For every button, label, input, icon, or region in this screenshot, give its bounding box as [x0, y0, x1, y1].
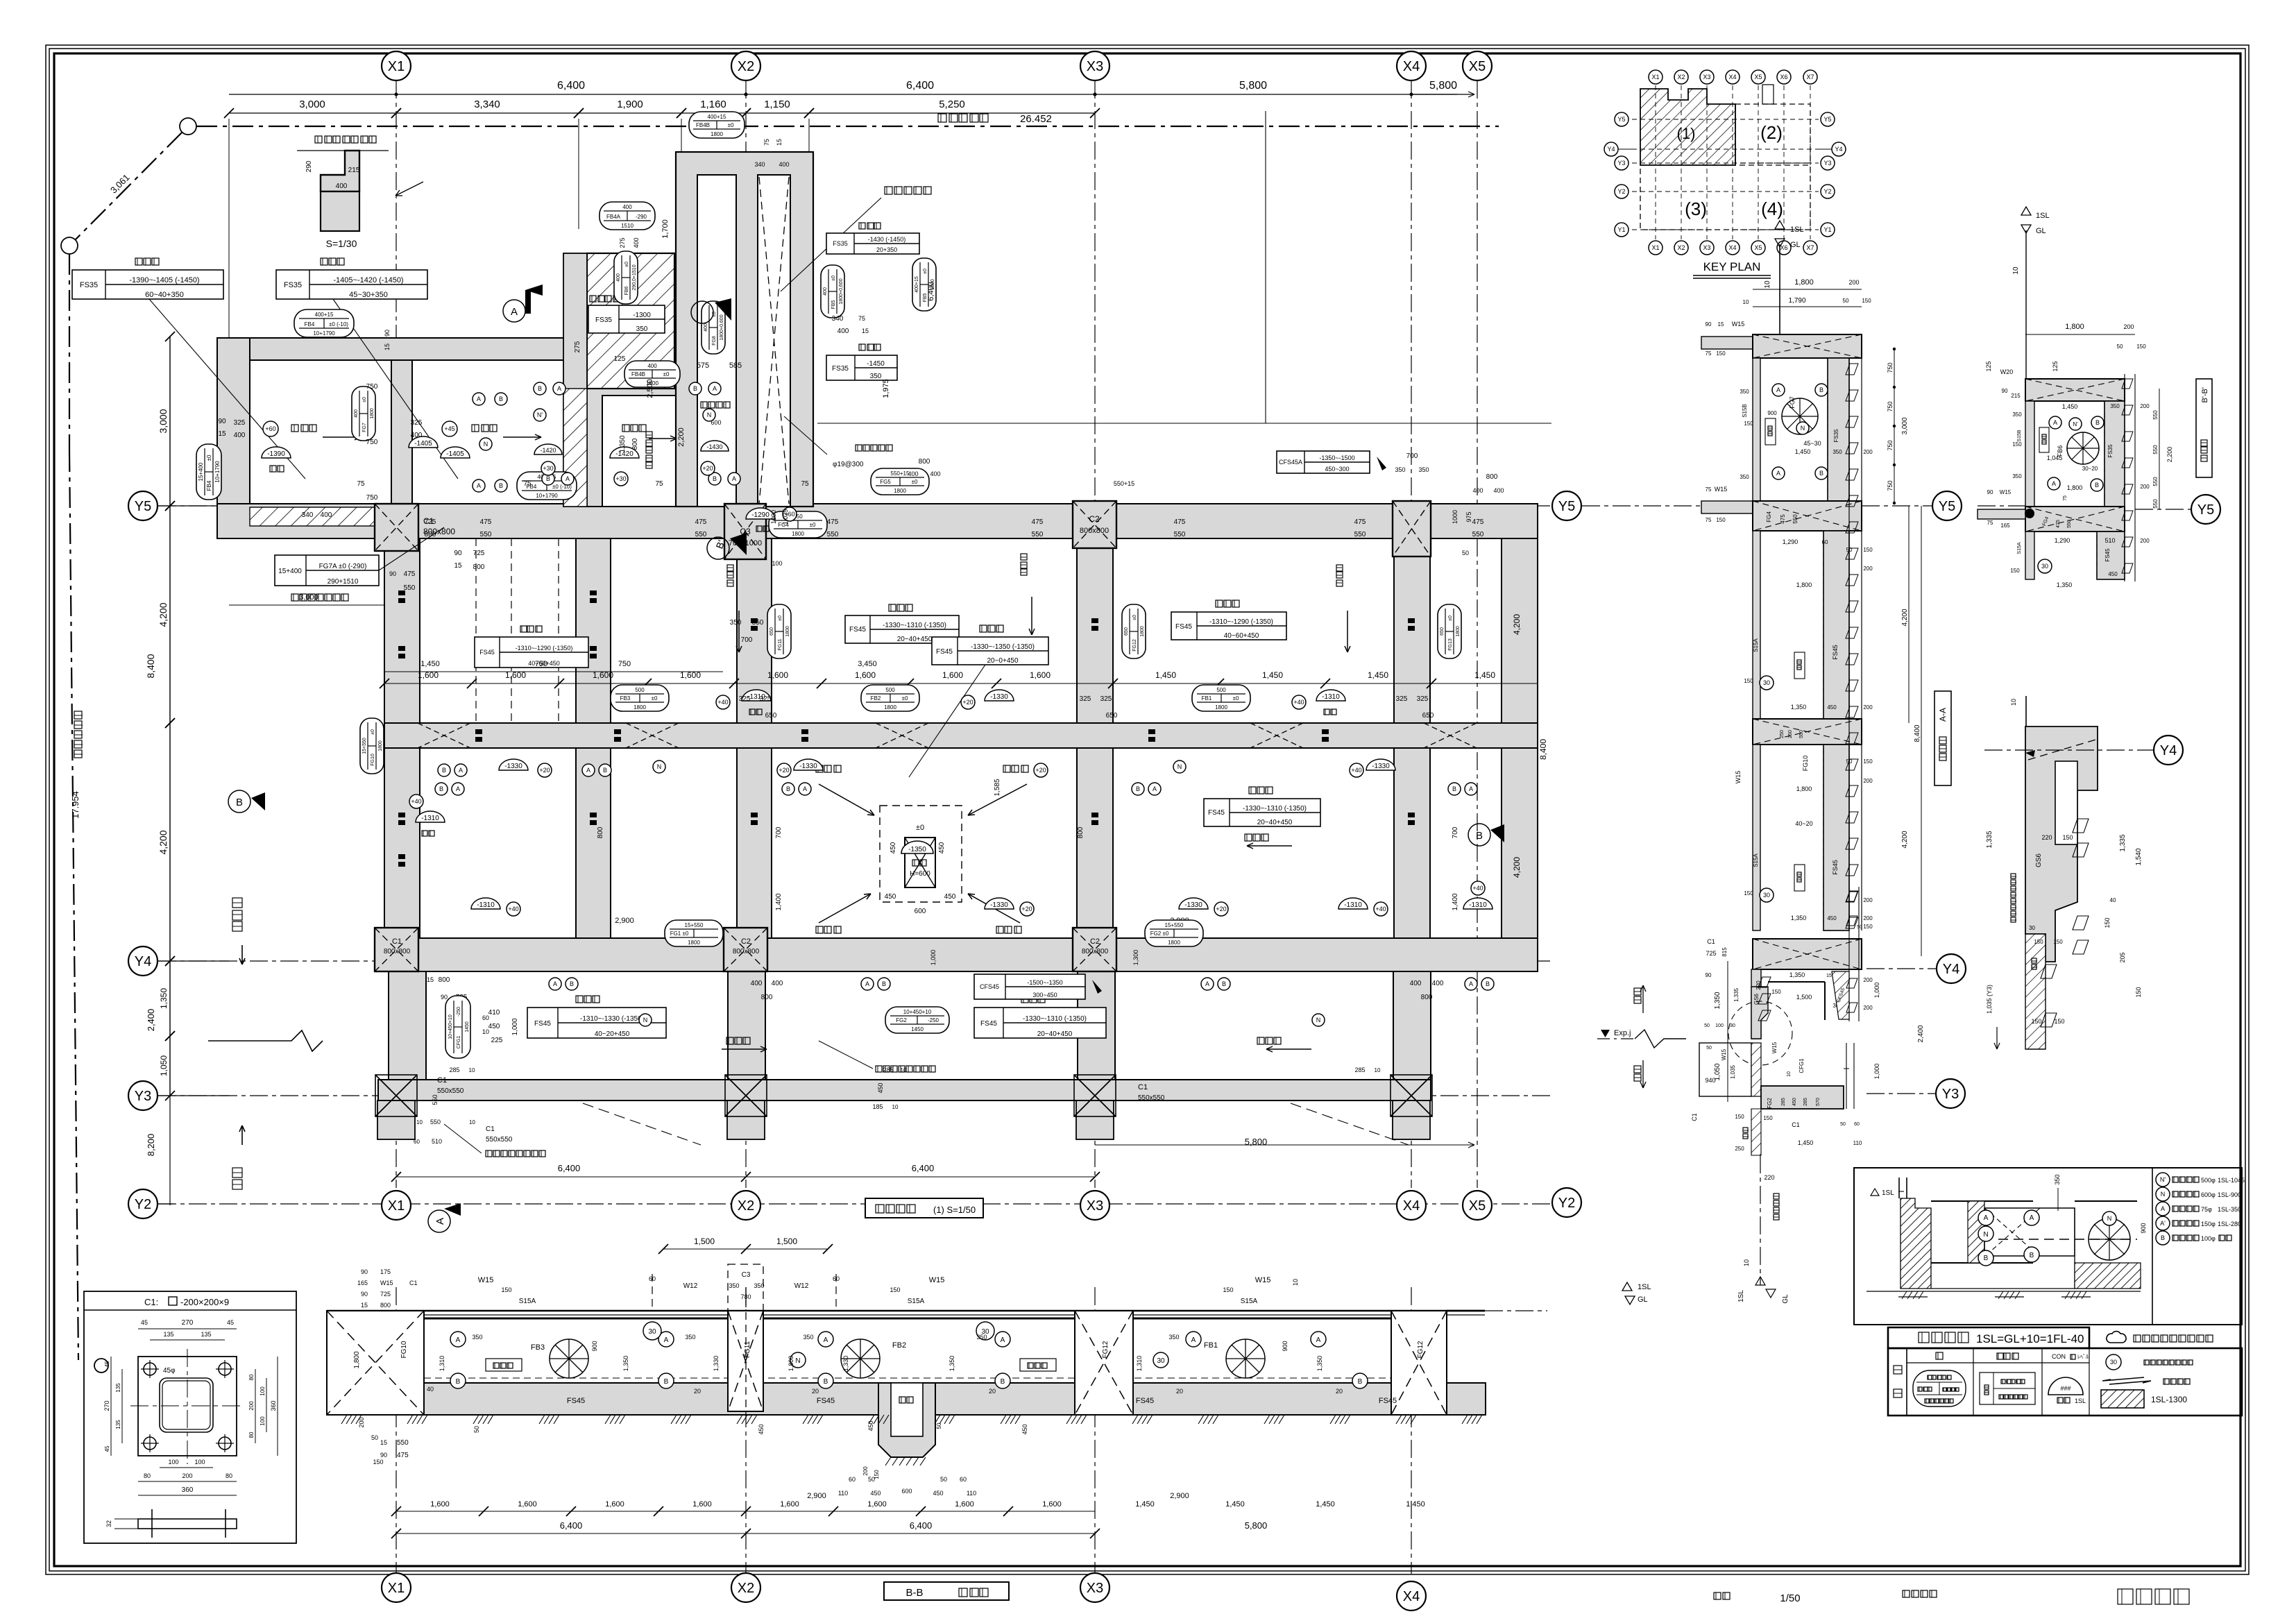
svg-text:1SL: 1SL [1882, 1189, 1894, 1197]
svg-text:20: 20 [989, 1388, 996, 1395]
svg-text:B: B [1222, 980, 1226, 987]
svg-text:510: 510 [432, 1138, 442, 1145]
svg-text:N': N' [537, 411, 543, 418]
svg-text:400: 400 [321, 511, 332, 519]
svg-text:1,000: 1,000 [1873, 1064, 1880, 1080]
svg-text:5,800: 5,800 [1429, 80, 1457, 92]
svg-text:1,450: 1,450 [1135, 1500, 1155, 1509]
svg-text:1,700: 1,700 [661, 219, 670, 239]
svg-text:8,200: 8,200 [146, 1134, 156, 1157]
svg-text:350: 350 [636, 325, 648, 333]
svg-text:800: 800 [761, 994, 773, 1001]
svg-text:50: 50 [473, 1426, 480, 1433]
svg-text:30: 30 [2110, 1359, 2117, 1366]
svg-text:75: 75 [858, 315, 865, 322]
svg-text:A: A [557, 385, 561, 392]
svg-text:800: 800 [425, 531, 436, 538]
svg-text:1,790: 1,790 [1788, 297, 1805, 305]
ExpJ right hatch column [1848, 887, 1850, 1021]
svg-text:2,200: 2,200 [2166, 447, 2173, 463]
svg-text:W15: W15 [478, 1276, 494, 1284]
C1 plate square [138, 1357, 237, 1456]
EV pit label table [590, 296, 596, 302]
svg-text:325: 325 [1417, 695, 1429, 703]
B-B bottom dim rows [396, 1511, 1095, 1512]
svg-text:FB1: FB1 [1204, 1341, 1218, 1350]
svg-text:350: 350 [1740, 389, 1749, 395]
svg-text:800x800: 800x800 [384, 948, 411, 955]
svg-text:1SL-280: 1SL-280 [2218, 1221, 2241, 1227]
svg-text:Y3: Y3 [1617, 160, 1625, 167]
svg-text:W12: W12 [794, 1282, 809, 1290]
svg-text:550: 550 [404, 584, 416, 592]
svg-text:Y2: Y2 [1823, 188, 1831, 195]
A-A FG7 sleeve [1782, 398, 1818, 434]
svg-text:1,450: 1,450 [1474, 670, 1495, 680]
svg-text:1,350: 1,350 [1714, 992, 1721, 1009]
svg-text:60: 60 [849, 1476, 856, 1483]
svg-text:-1330: -1330 [504, 763, 522, 770]
A-A Y5 slab [1701, 501, 1753, 513]
svg-text:1,150: 1,150 [764, 99, 790, 110]
svg-text:-1330~-1310 (-1350): -1330~-1310 (-1350) [1023, 1015, 1087, 1023]
svg-text:10: 10 [469, 1119, 475, 1125]
B-B C3 dashed column above [728, 1264, 763, 1311]
A-A right dim line [1894, 349, 1895, 503]
svg-text:-1300: -1300 [633, 312, 651, 319]
svg-text:1SL: 1SL [2036, 212, 2050, 220]
plan: water-slope arrows around sump [819, 784, 874, 815]
svg-text:150: 150 [1744, 890, 1753, 897]
svg-text:200: 200 [248, 1401, 255, 1411]
svg-text:FB4: FB4 [305, 321, 315, 328]
svg-text:150: 150 [373, 1459, 383, 1465]
svg-text:S15A: S15A [1753, 853, 1759, 867]
svg-text:-290: -290 [636, 214, 647, 220]
plan: C3 column 700x1000 at X4/Y5 [1393, 501, 1431, 556]
svg-text:+40: +40 [1351, 767, 1361, 774]
A-A top dims [1753, 289, 1862, 290]
svg-text:200: 200 [1863, 449, 1873, 455]
svg-text:285: 285 [1803, 1098, 1808, 1106]
svg-text:FS45: FS45 [567, 1397, 585, 1405]
svg-text:-1405: -1405 [414, 440, 432, 448]
plan: Y4 columns C1/C2/C2 [375, 928, 418, 971]
svg-text:150: 150 [1223, 1286, 1233, 1293]
svg-text:FG10: FG10 [371, 754, 375, 766]
svg-text:185: 185 [872, 1103, 883, 1110]
svg-text:10: 10 [1743, 1259, 1750, 1266]
ExpJ dims [1727, 961, 1728, 1102]
A-A right dim texts [1908, 506, 1910, 723]
svg-text:40~60+450: 40~60+450 [1224, 632, 1259, 640]
svg-text:KEY PLAN: KEY PLAN [1703, 260, 1761, 273]
svg-text:200: 200 [2140, 538, 2150, 544]
svg-text:20~40+450: 20~40+450 [897, 636, 933, 643]
svg-text:FB3: FB3 [620, 695, 631, 702]
svg-text:550x550: 550x550 [1138, 1094, 1165, 1102]
svg-text:800: 800 [631, 438, 639, 450]
svg-text:700: 700 [775, 826, 783, 838]
B-B ground slab [327, 1383, 1486, 1415]
key plan bubbles [1649, 70, 1663, 84]
A-A left wall stub at top [1701, 337, 1753, 349]
svg-text:45~30+350: 45~30+350 [349, 291, 388, 299]
plan: shaft room west void [697, 175, 736, 507]
svg-text:1,350: 1,350 [619, 435, 627, 452]
svg-text:350: 350 [2110, 403, 2120, 409]
svg-text:110: 110 [1853, 1140, 1862, 1146]
svg-text:1800: 1800 [370, 408, 375, 419]
svg-text:400+15: 400+15 [315, 312, 334, 318]
ExpJ left wall below Y4 [1751, 969, 1761, 1039]
svg-text:C1: C1 [1792, 1121, 1800, 1128]
svg-text:B: B [1358, 1378, 1363, 1386]
svg-text:75: 75 [1706, 350, 1712, 357]
svg-text:400: 400 [1493, 487, 1504, 494]
pit table X3-X4 room [1249, 787, 1256, 794]
svg-text:±0: ±0 [810, 522, 816, 528]
svg-text:150: 150 [2062, 834, 2073, 841]
svg-text:20~40+450: 20~40+450 [1257, 819, 1293, 826]
svg-text:15: 15 [427, 976, 434, 983]
svg-text:1,800: 1,800 [1794, 278, 1814, 287]
A section flag near X1 bottom [428, 1203, 461, 1232]
svg-text:B: B [603, 767, 607, 774]
svg-text:285: 285 [1354, 1067, 1365, 1073]
svg-text:800x800: 800x800 [1082, 948, 1109, 955]
B'-B' pit walls [2025, 401, 2034, 507]
svg-text:550: 550 [430, 1119, 441, 1125]
svg-text:W15: W15 [1735, 771, 1742, 784]
svg-text:550: 550 [1792, 514, 1798, 524]
hanrei slab cell [1980, 1373, 2035, 1404]
svg-text:650: 650 [1124, 627, 1129, 636]
svg-text:50: 50 [1706, 1046, 1712, 1051]
svg-text:50: 50 [1857, 925, 1862, 930]
svg-text:570: 570 [1816, 1098, 1821, 1106]
plan: Y5 wall band [217, 504, 1538, 538]
small vent circles block A [473, 393, 485, 405]
svg-text:150: 150 [1744, 678, 1753, 684]
svg-text:100: 100 [1715, 1023, 1724, 1028]
svg-text:725: 725 [380, 1291, 391, 1298]
svg-text:Y1: Y1 [1823, 226, 1831, 233]
svg-text:FG12: FG12 [1417, 1341, 1425, 1358]
svg-text:350: 350 [803, 1334, 813, 1341]
svg-text:6,400: 6,400 [912, 1163, 935, 1173]
svg-text:A: A [434, 1218, 446, 1225]
svg-text:800: 800 [1077, 826, 1085, 838]
svg-text:FG5: FG5 [880, 479, 891, 485]
svg-text:270: 270 [182, 1319, 194, 1327]
svg-text:15: 15 [380, 1439, 387, 1446]
GS6 gray band [2025, 726, 2098, 962]
svg-text:20: 20 [812, 1388, 819, 1395]
svg-text:200: 200 [2140, 403, 2150, 409]
svg-text:2,900: 2,900 [1170, 1492, 1189, 1500]
svg-text:W20: W20 [2000, 368, 2014, 375]
svg-text:290: 290 [305, 160, 313, 172]
B-B pit soffit thick line [424, 1318, 728, 1320]
svg-text:1,310: 1,310 [1136, 1356, 1143, 1372]
svg-text:20: 20 [1176, 1388, 1183, 1395]
svg-text:450: 450 [944, 893, 956, 901]
svg-text:±0 (-10): ±0 (-10) [329, 321, 348, 328]
svg-text:220: 220 [1755, 980, 1762, 990]
svg-text:B: B [439, 785, 443, 792]
svg-text:500φ: 500φ [2201, 1177, 2216, 1184]
FG10 vertical oval on X1 wall [360, 718, 384, 774]
svg-text:50: 50 [868, 1476, 875, 1483]
svg-text:800: 800 [597, 826, 604, 838]
svg-text:B: B [499, 396, 503, 402]
svg-text:X1: X1 [1651, 244, 1659, 251]
svg-text:1,290: 1,290 [1783, 538, 1798, 545]
svg-text:S15A: S15A [1241, 1298, 1258, 1305]
svg-text:FS45: FS45 [1379, 1397, 1397, 1405]
svg-text:ﾚﾍﾞﾙ: ﾚﾍﾞﾙ [2077, 1354, 2089, 1360]
svg-text:6,400: 6,400 [906, 80, 934, 92]
svg-text:30~20: 30~20 [2082, 466, 2098, 472]
svg-text:10+1790: 10+1790 [536, 493, 558, 499]
svg-text:220: 220 [2041, 834, 2052, 841]
svg-text:A: A [1153, 785, 1157, 792]
svg-text:C1: C1 [437, 1076, 447, 1085]
svg-text:15: 15 [361, 1302, 368, 1309]
svg-text:+40: +40 [508, 906, 518, 912]
svg-text:400: 400 [751, 980, 763, 987]
FS35 pit table right of shaft [859, 223, 865, 229]
svg-text:200: 200 [1848, 279, 1859, 286]
Exp.j level mark [1597, 1038, 1635, 1039]
svg-text:X3: X3 [1087, 1198, 1103, 1214]
svg-text:-1310: -1310 [421, 815, 439, 822]
svg-text:W15: W15 [1721, 1048, 1727, 1060]
svg-text:1,450: 1,450 [1368, 670, 1388, 680]
svg-text:450: 450 [1792, 1098, 1797, 1106]
svg-text:-1330~-1310 (-1350): -1330~-1310 (-1350) [1243, 805, 1307, 813]
svg-text:4,200: 4,200 [1901, 609, 1909, 626]
svg-text:-1310~-1290 (-1350): -1310~-1290 (-1350) [516, 645, 573, 652]
svg-text:800x800: 800x800 [1080, 527, 1109, 535]
plan: block A right wall [580, 360, 602, 507]
svg-text:400: 400 [823, 287, 828, 296]
hanrei beam oval [1913, 1370, 1966, 1407]
A-A pit1 [1753, 358, 1760, 501]
C1 bottom dims [160, 1467, 213, 1468]
svg-text:150: 150 [1735, 1114, 1744, 1120]
svg-text:1510: 1510 [621, 223, 633, 229]
ExpJ bottom marker [1760, 1155, 1761, 1285]
svg-text:275: 275 [574, 341, 581, 352]
FG7 vertical oval [352, 386, 375, 441]
svg-text:40~20+450: 40~20+450 [595, 1030, 630, 1038]
svg-text:-1500~-1350: -1500~-1350 [1027, 979, 1062, 986]
svg-text:X5: X5 [1469, 59, 1486, 74]
svg-text:550: 550 [2152, 410, 2159, 420]
grid line X4 [1411, 80, 1412, 1188]
svg-text:1,500: 1,500 [776, 1237, 797, 1246]
B'-B' FB6 sleeve [2067, 432, 2099, 464]
svg-text:FB5: FB5 [831, 300, 836, 309]
svg-text:N': N' [2160, 1176, 2166, 1183]
svg-text:+20: +20 [1035, 767, 1046, 774]
svg-text:1,035: 1,035 [1730, 1064, 1736, 1079]
FB4 oval labels upper-left [294, 309, 354, 337]
svg-text:FG10: FG10 [400, 1341, 408, 1358]
svg-text:A: A [1001, 1336, 1005, 1344]
svg-text:30: 30 [648, 1328, 656, 1336]
svg-text:400: 400 [1472, 487, 1483, 494]
FG5 oval [871, 468, 929, 495]
svg-text:200: 200 [1863, 566, 1873, 572]
pit tables below mid band [576, 996, 583, 1003]
svg-text:1SL-900: 1SL-900 [2218, 1191, 2241, 1198]
svg-text:450: 450 [1827, 915, 1837, 921]
svg-text:FS35: FS35 [284, 281, 302, 289]
svg-text:6,400: 6,400 [558, 1163, 581, 1173]
svg-text:510: 510 [2104, 537, 2115, 544]
grid line Y3 [158, 1095, 1551, 1096]
svg-text:90: 90 [2002, 388, 2008, 394]
key plan grid lines [1655, 85, 1656, 239]
svg-text:W15: W15 [1732, 321, 1745, 328]
svg-text:-1330: -1330 [1184, 901, 1202, 909]
svg-text:+45: +45 [444, 425, 454, 432]
plan: hatched wall strip [563, 389, 587, 507]
svg-text:B: B [2030, 1252, 2034, 1259]
plan: column below Y4 at X2 [728, 971, 765, 1080]
svg-text:75: 75 [523, 480, 532, 488]
svg-text:1450: 1450 [465, 1021, 470, 1033]
svg-text:B: B [1452, 785, 1456, 792]
svg-text:150: 150 [2010, 568, 2020, 574]
svg-text:Y2: Y2 [135, 1197, 151, 1212]
svg-text:1,500: 1,500 [694, 1237, 715, 1246]
svg-text:±0: ±0 [362, 397, 367, 402]
FB5 vertical oval right of shaft [821, 265, 844, 318]
svg-text:175: 175 [380, 1268, 391, 1275]
svg-text:A: A [803, 785, 807, 792]
svg-text:975: 975 [1465, 511, 1472, 522]
svg-text:5,800: 5,800 [1245, 1520, 1268, 1531]
svg-text:650: 650 [1106, 712, 1118, 720]
svg-text:650: 650 [765, 712, 777, 720]
site boundary dash-dot with corner circles [180, 118, 196, 135]
svg-text:C2: C2 [1090, 937, 1100, 946]
svg-text:A: A [459, 767, 463, 774]
svg-text:GL: GL [2036, 227, 2046, 235]
svg-text:±0: ±0 [371, 729, 375, 735]
svg-text:A: A [566, 475, 570, 482]
svg-text:1,600: 1,600 [692, 1500, 712, 1509]
svg-text:+20: +20 [702, 465, 713, 472]
svg-text:±0: ±0 [624, 262, 629, 267]
legend ground hatches [1898, 1296, 1928, 1298]
svg-text:550: 550 [1174, 531, 1186, 538]
B-B sump hatch [885, 1457, 891, 1465]
svg-text:700: 700 [1406, 452, 1418, 460]
drawing standard title bar [1888, 1327, 2089, 1348]
1450/750 dims in pit 1 [384, 671, 723, 672]
top dimension row 2: 3000/3340/1900/1160/1150/5250 [229, 112, 1095, 114]
svg-text:###: ### [2060, 1385, 2070, 1392]
svg-text:Y5: Y5 [135, 499, 151, 514]
svg-text:(4): (4) [1761, 198, 1783, 219]
svg-text:700: 700 [1452, 826, 1459, 838]
svg-text:B: B [538, 385, 542, 392]
svg-text:±0: ±0 [1132, 615, 1137, 620]
svg-text:N: N [795, 1357, 800, 1365]
svg-text:475: 475 [1174, 518, 1186, 526]
key plan hatched building block [1640, 89, 1735, 165]
svg-text:150: 150 [1862, 298, 1871, 304]
svg-text:FS45: FS45 [1832, 645, 1839, 660]
svg-text:S15B: S15B [2017, 430, 2022, 441]
svg-text:75: 75 [1987, 520, 1993, 526]
svg-text:135: 135 [163, 1331, 173, 1338]
svg-text:X1: X1 [388, 59, 405, 74]
svg-text:FS35: FS35 [832, 365, 849, 373]
svg-text:475: 475 [480, 518, 492, 526]
svg-text:550: 550 [432, 1094, 439, 1105]
svg-text:X4: X4 [1403, 1198, 1420, 1214]
B'-B' label box [2196, 379, 2212, 477]
svg-text:585: 585 [729, 362, 742, 370]
svg-text:2,400: 2,400 [1917, 1025, 1925, 1042]
svg-text:3,000: 3,000 [1901, 417, 1909, 434]
svg-text:X4: X4 [1403, 59, 1420, 74]
svg-text:215: 215 [2011, 393, 2021, 399]
svg-text:750: 750 [366, 494, 378, 502]
svg-text:100: 100 [772, 560, 782, 567]
A-A 1SL/GL marker top [1775, 221, 1785, 229]
hanrei CON dome [2048, 1377, 2083, 1395]
svg-text:60: 60 [649, 1275, 656, 1282]
svg-text:B: B [570, 980, 574, 987]
svg-text:A: A [1191, 1336, 1196, 1344]
Y3 dashed diagonal leaders [583, 1103, 701, 1145]
svg-text:FG11: FG11 [744, 1341, 751, 1358]
svg-text:360: 360 [270, 1400, 277, 1411]
svg-text:75: 75 [357, 480, 365, 488]
svg-text:N: N [1316, 1017, 1321, 1023]
svg-text:FB4A: FB4A [606, 214, 621, 220]
plan: C2 column 800x800 at X3/Y5 [1073, 501, 1116, 548]
svg-text:550+15: 550+15 [891, 470, 910, 477]
svg-text:FB2: FB2 [871, 695, 881, 702]
svg-text:60: 60 [833, 1275, 840, 1282]
svg-text:200: 200 [358, 1417, 365, 1427]
svg-text:325: 325 [1080, 695, 1091, 703]
svg-text:X7: X7 [1806, 244, 1814, 251]
plan: X3 wall below Y5 [1077, 548, 1113, 723]
svg-text:650: 650 [769, 627, 774, 636]
svg-text:40: 40 [427, 1386, 434, 1393]
svg-text:A: A [1316, 1336, 1321, 1344]
ExpJ detail circle [1728, 1001, 1792, 1065]
svg-text:1,330: 1,330 [713, 1356, 720, 1372]
svg-text:400+15: 400+15 [915, 276, 919, 293]
svg-text:1SL-350: 1SL-350 [2218, 1206, 2241, 1213]
svg-text:B: B [546, 475, 550, 482]
svg-text:Y3: Y3 [135, 1089, 151, 1104]
svg-text:30: 30 [1763, 679, 1770, 686]
plan: column below Y4 at X3 [1078, 971, 1115, 1080]
svg-text:450: 450 [867, 1420, 874, 1431]
svg-text:6,400: 6,400 [557, 80, 585, 92]
